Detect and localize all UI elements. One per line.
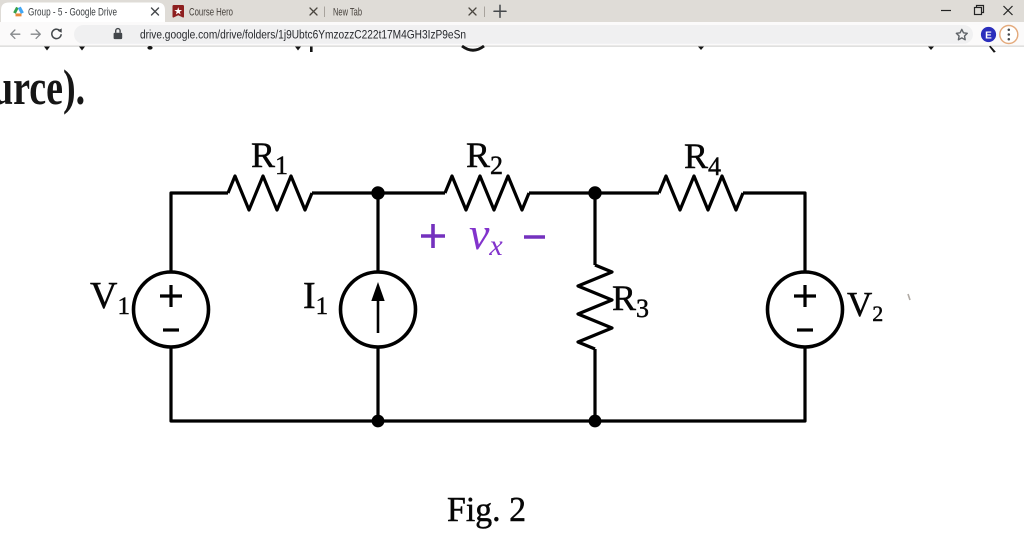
svg-text:New Tab: New Tab [333,7,362,19]
svg-text:Fig. 2: Fig. 2 [447,490,526,529]
svg-text:Group - 5 - Google Drive: Group - 5 - Google Drive [28,7,117,19]
svg-text:Course Hero: Course Hero [189,7,233,19]
svg-text:E: E [985,30,992,41]
svg-text:★: ★ [174,6,183,17]
svg-text:drive.google.com/drive/folders: drive.google.com/drive/folders/1j9Ubtc6Y… [140,28,466,42]
svg-text:urce).: urce). [0,59,85,115]
